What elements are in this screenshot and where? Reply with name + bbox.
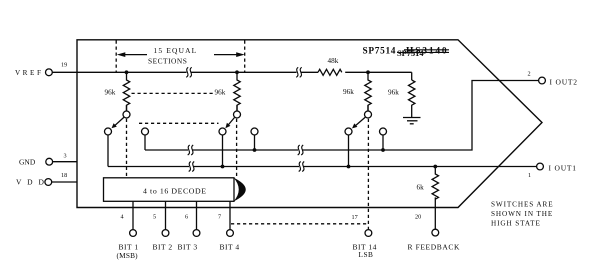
svg-text:15 EQUAL: 15 EQUAL bbox=[154, 46, 198, 55]
wire decode output pin 5 bbox=[165, 201, 167, 229]
terminal R FEEDBACK pin 20 bbox=[432, 229, 439, 236]
svg-text:96k: 96k bbox=[343, 88, 354, 96]
svg-text:3: 3 bbox=[64, 153, 67, 160]
wire GND bbox=[53, 161, 77, 163]
wire S3 contact A to IOUT1 bus bbox=[348, 135, 350, 167]
svg-text:BIT 4: BIT 4 bbox=[220, 242, 240, 251]
break symbol on VREF rail 2 bbox=[296, 67, 302, 77]
switch S3 contact B bbox=[380, 128, 387, 135]
svg-text:4: 4 bbox=[121, 214, 124, 221]
resistor R5 48k horizontal bbox=[318, 69, 342, 75]
svg-text:6k: 6k bbox=[417, 184, 425, 192]
svg-text:(MSB): (MSB) bbox=[117, 251, 139, 260]
switch S1 arm arrow bbox=[113, 117, 124, 127]
dashed link bit4 to bit14 bbox=[231, 223, 368, 225]
dimension arrow left bbox=[117, 52, 147, 57]
svg-text:SECTIONS: SECTIONS bbox=[148, 56, 187, 65]
svg-text:20: 20 bbox=[415, 213, 421, 220]
junction node on VREF at R1 bbox=[125, 70, 129, 74]
dimension arrow right bbox=[214, 52, 245, 57]
svg-text:2: 2 bbox=[528, 71, 531, 78]
svg-text:1: 1 bbox=[528, 172, 531, 179]
break symbol on IOUT1 bus bbox=[189, 162, 195, 172]
wire S2 contact A to IOUT1 bus bbox=[222, 135, 224, 167]
svg-text:48k: 48k bbox=[328, 57, 339, 65]
switch S1 pole bbox=[126, 105, 128, 111]
switch S1 contact A bbox=[105, 128, 112, 135]
svg-text:96k: 96k bbox=[105, 89, 116, 97]
terminal GND pin 3 bbox=[46, 158, 53, 165]
switch S2 contact B bbox=[251, 128, 258, 135]
terminal BIT1 pin 4 bbox=[130, 230, 137, 237]
dashed link between R1 and R2 bbox=[132, 92, 214, 94]
switch S3 pole bbox=[367, 105, 369, 111]
section marker dashed line right bbox=[244, 41, 246, 73]
svg-text:SHOWN IN THE: SHOWN IN THE bbox=[491, 210, 553, 218]
ground bbox=[403, 118, 421, 124]
junction node S3A on IOUT1 bus bbox=[347, 165, 351, 169]
junction node S2A on IOUT1 bus bbox=[221, 165, 225, 169]
svg-text:7: 7 bbox=[218, 214, 221, 221]
svg-text:I OUT1: I OUT1 bbox=[549, 163, 577, 172]
svg-text:LSB: LSB bbox=[359, 250, 374, 259]
decoder U2 4 to 16 DECODE bbox=[104, 178, 235, 202]
switch S2 control dashed bbox=[236, 119, 238, 178]
switch S3 control dashed to pin 17 bbox=[367, 119, 369, 230]
wire to R4 bbox=[411, 72, 413, 80]
svg-text:GND: GND bbox=[19, 157, 36, 166]
junction node S3B on IOUT2 bus bbox=[381, 148, 385, 152]
terminal IOUT2 pin 2 bbox=[539, 77, 546, 84]
wire IOUT2 bus bbox=[145, 149, 188, 151]
svg-text:17: 17 bbox=[352, 214, 358, 221]
terminal VDD pin 18 bbox=[45, 179, 52, 186]
switch S1 contact B bbox=[142, 128, 149, 135]
break symbol on VREF rail bbox=[186, 67, 192, 77]
terminal IOUT1 pin 1 bbox=[537, 163, 544, 170]
junction node R6 on IOUT1 bus bbox=[433, 165, 437, 169]
svg-text:BIT 1: BIT 1 bbox=[119, 242, 139, 251]
resistor R3 96k bbox=[365, 72, 371, 111]
svg-text:96k: 96k bbox=[215, 89, 226, 97]
break symbol on IOUT2 bus 2 bbox=[298, 145, 304, 155]
resistor R6 6k feedback bbox=[432, 167, 438, 200]
resistor R1 96k bbox=[123, 72, 129, 111]
wire IOUT1 bus bbox=[108, 166, 189, 168]
wire decode output pin 6 bbox=[196, 201, 198, 229]
wire S1 contact A to IOUT1 bus bbox=[107, 135, 109, 167]
svg-text:V R E F: V R E F bbox=[15, 69, 41, 77]
terminal BIT2 pin 5 bbox=[162, 230, 169, 237]
break symbol on IOUT2 bus bbox=[188, 145, 194, 155]
svg-text:R FEEDBACK: R FEEDBACK bbox=[408, 242, 460, 251]
svg-text:4 to 16 DECODE: 4 to 16 DECODE bbox=[143, 186, 207, 195]
svg-text:SP7514: SP7514 bbox=[397, 49, 424, 58]
switch S2 pole bbox=[236, 105, 238, 111]
svg-text:19: 19 bbox=[61, 62, 67, 69]
switch S3 arm arrow bbox=[354, 117, 366, 127]
terminal VREF pin 19 bbox=[46, 69, 53, 76]
svg-text:SWITCHES ARE: SWITCHES ARE bbox=[491, 200, 554, 208]
wire VREF rail bbox=[52, 71, 186, 73]
svg-text:18: 18 bbox=[61, 172, 67, 179]
svg-text:6: 6 bbox=[185, 214, 188, 221]
terminal BIT3 pin 6 bbox=[193, 230, 200, 237]
svg-text:BIT 3: BIT 3 bbox=[178, 242, 198, 251]
wire decode output pin 4 bbox=[132, 201, 134, 229]
wire VDD bbox=[52, 181, 77, 183]
terminal BIT14 pin 17 bbox=[365, 230, 372, 237]
wire decode output pin 7 bbox=[229, 201, 231, 229]
svg-text:SP7514: SP7514 bbox=[363, 47, 397, 57]
svg-text:5: 5 bbox=[153, 214, 156, 221]
dashed link S1 to S2 bbox=[139, 122, 219, 124]
switch S2 arm arrow bbox=[227, 118, 235, 128]
break symbol on IOUT1 bus 2 bbox=[299, 162, 305, 172]
section marker dashed line left bbox=[115, 41, 117, 73]
wire S1 contact B to IOUT2 bus bbox=[144, 135, 146, 150]
switch S1 control dashed bbox=[126, 119, 128, 178]
svg-text:HIGH STATE: HIGH STATE bbox=[491, 220, 541, 228]
resistor R2 96k bbox=[234, 72, 240, 111]
svg-text:I OUT2: I OUT2 bbox=[550, 77, 578, 86]
wire R6 to pin 20 bbox=[434, 197, 436, 229]
junction node on VREF at R3 bbox=[366, 70, 370, 74]
wire S2 contact B to IOUT2 bus bbox=[254, 135, 256, 150]
svg-text:96k: 96k bbox=[388, 89, 399, 97]
wire S3 contact B to IOUT2 bus bbox=[382, 135, 384, 150]
switch S2 contact A bbox=[219, 128, 226, 135]
switch S3 contact A bbox=[345, 128, 352, 135]
resistor R4 96k (to ground) bbox=[409, 80, 415, 118]
terminal BIT4 pin 7 bbox=[227, 230, 234, 237]
IC package outline U1 bbox=[77, 40, 542, 208]
junction node on VREF at R2 bbox=[235, 70, 239, 74]
junction node S2B on IOUT2 bus bbox=[253, 148, 257, 152]
svg-text:BIT 2: BIT 2 bbox=[153, 242, 173, 251]
svg-text:V D D: V D D bbox=[16, 178, 46, 187]
